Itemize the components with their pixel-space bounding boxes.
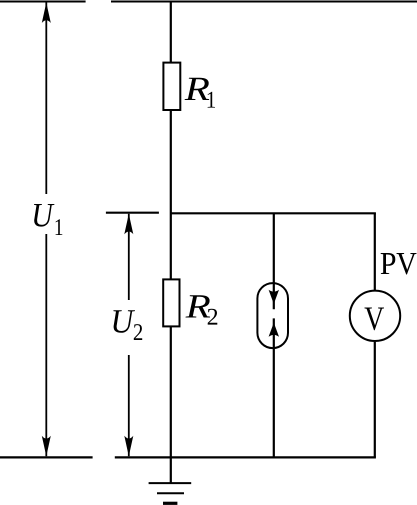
wire top rail left segment	[0, 1, 86, 3]
resistor R2	[163, 279, 179, 326]
label R1	[185, 78, 215, 108]
wire right branch lower	[374, 342, 376, 458]
label U1	[34, 204, 62, 235]
wire tube branch lower electrode with up arrowhead	[269, 318, 279, 457]
dimension arrow U2	[124, 214, 133, 456]
wire main vertical: top rail to R1	[170, 2, 172, 64]
wire middle rail	[171, 212, 376, 214]
dimension arrow U1	[42, 3, 51, 457]
gas discharge tube envelope	[257, 283, 288, 348]
label R2	[186, 295, 218, 324]
wire U2 reference line	[106, 212, 159, 214]
wire bottom rail right segment	[115, 456, 376, 458]
ground	[149, 457, 192, 503]
voltmeter PV	[350, 291, 400, 341]
wire right branch upper	[374, 213, 376, 292]
wire main vertical: R2 to bottom rail	[170, 326, 172, 457]
label U2	[113, 310, 142, 340]
wire tube branch upper electrode with down arrowhead	[269, 213, 279, 309]
wire main vertical: R1 to R2 through middle junction	[170, 110, 172, 280]
wire top rail right segment	[111, 1, 417, 3]
wire bottom rail left segment	[0, 456, 93, 458]
resistor R1	[163, 63, 180, 110]
label PV	[381, 253, 417, 275]
